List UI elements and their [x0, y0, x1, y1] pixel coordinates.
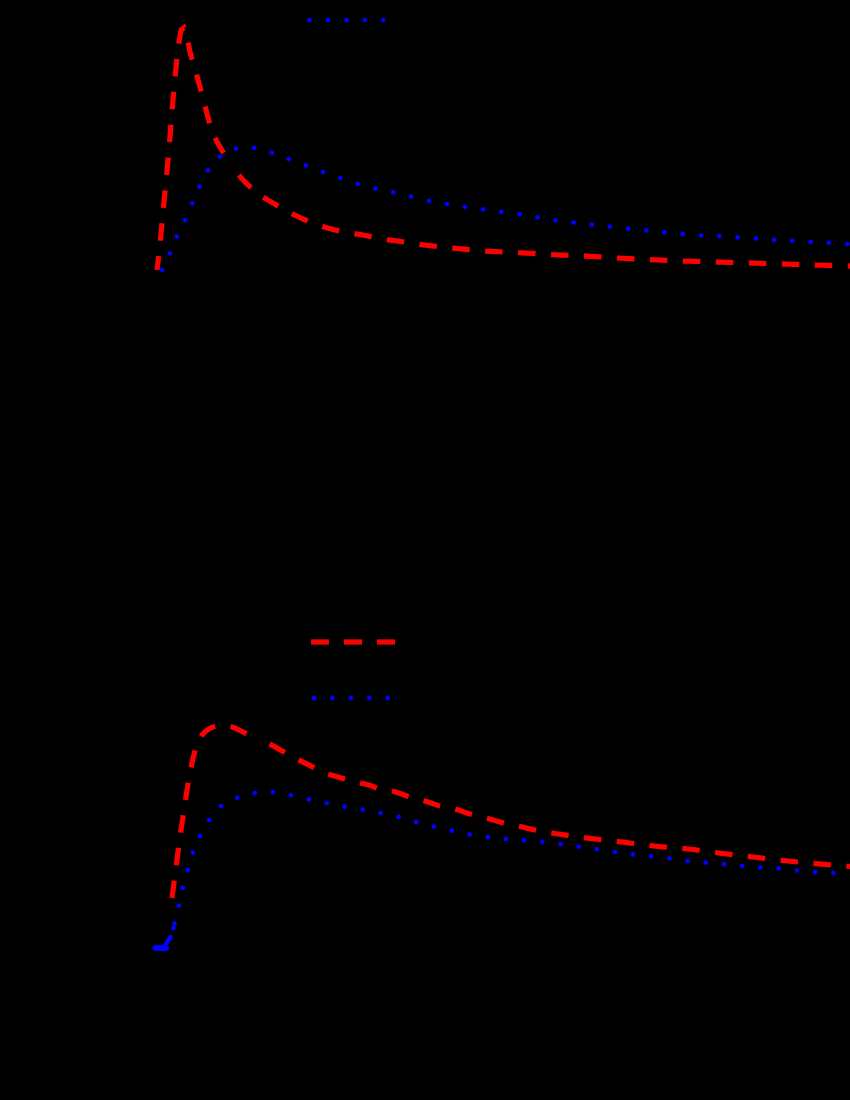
top chart: blue dotted curve — [162, 147, 850, 270]
bottom chart: blue first dot — [171, 926, 176, 931]
top chart legend: blue dotted sample — [310, 18, 385, 23]
bottom chart legend: red dashed sample — [311, 639, 395, 644]
top chart: red dashed curve (decay tail) — [231, 164, 850, 267]
top chart: red dashed curve (rise and peak) — [157, 28, 231, 270]
bottom chart: blue start rising arm — [165, 937, 171, 946]
bottom chart: blue dotted curve — [174, 792, 850, 928]
bottom chart: blue start marker bar — [156, 945, 167, 951]
bottom chart: red dashed curve (decay tail) — [257, 738, 850, 867]
bottom chart: red dashed curve (rise and peak) — [172, 726, 257, 899]
bottom chart legend: blue dotted sample — [314, 696, 389, 701]
